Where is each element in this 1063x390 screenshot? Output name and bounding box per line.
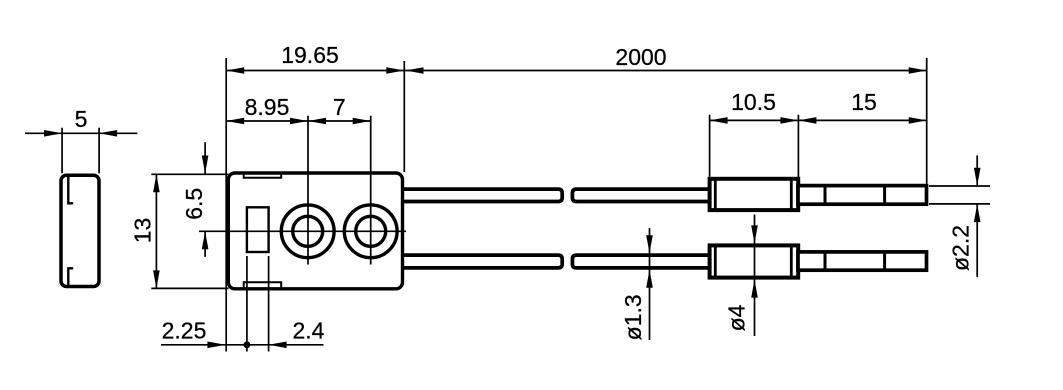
dimension o1.3 down arrow (646, 235, 653, 253)
dimension 10.5 left arrow (710, 117, 728, 124)
svg-text:13: 13 (130, 218, 156, 244)
dimension o2.2 up arrow (974, 204, 981, 222)
main body outline (228, 173, 402, 289)
dimension 6.5 upper segment (204, 142, 206, 173)
dimension 19.65 line (226, 70, 404, 72)
dimension 15 line (798, 119, 926, 121)
dimension o2.2 extension lines (929, 185, 990, 187)
dimension 10.5 right arrow (780, 117, 798, 124)
svg-text:2000: 2000 (615, 44, 666, 70)
dimension 7 right arrow (353, 118, 371, 125)
dimension o2.2 lower segment (976, 204, 978, 277)
bottom sleeve outline (710, 245, 799, 277)
dimension o2.2 upper segment (976, 155, 978, 185)
slot extension lines (246, 256, 248, 352)
side view groove upper line (68, 177, 73, 204)
svg-text:2.25: 2.25 (162, 318, 207, 344)
dimension 8.95 right arrow (290, 118, 308, 125)
dimension 7 left arrow (308, 118, 326, 125)
side view groove lower line (68, 268, 73, 285)
top tube division lines (824, 186, 827, 204)
svg-text:5: 5 (75, 106, 88, 132)
hole 1 vertical centerline (307, 116, 309, 265)
dimension 5 extension lines (61, 128, 63, 174)
hole 1 inner circle (293, 216, 323, 246)
svg-text:7: 7 (333, 94, 346, 120)
dimension 2000 right arrow (909, 67, 927, 74)
dimension 6.5 up arrow (202, 231, 209, 249)
top wire segment 1 (402, 189, 562, 201)
hole 1 outer circle (281, 205, 334, 258)
top sleeve outline (710, 179, 799, 210)
dimension 10.5 line (710, 119, 799, 121)
dimension 2.25 outside arrow (207, 342, 225, 349)
svg-text:10.5: 10.5 (731, 89, 776, 115)
svg-text:6.5: 6.5 (181, 188, 207, 220)
body right extension line (403, 61, 405, 172)
dimension 2000 left arrow (406, 67, 424, 74)
bottom tube outline (798, 252, 927, 270)
bottom sleeve inner lines (714, 246, 717, 278)
dimension o4 down arrow (751, 225, 758, 243)
dimension 6.5 lower segment (204, 231, 206, 257)
top tube outline (798, 186, 927, 205)
hole 2 vertical centerline (370, 116, 372, 265)
svg-text:ø1.3: ø1.3 (620, 294, 646, 340)
shared dimension dot (244, 341, 251, 348)
bottom wire segment 2 (572, 255, 708, 268)
dimension 19.65 left arrow (226, 67, 244, 74)
dimension 8.95 line (226, 120, 308, 122)
dimension 6.5 down arrow (202, 156, 209, 174)
dimension 2000 line (404, 70, 926, 72)
top wire segment 2 (572, 189, 708, 201)
dimension 5 left arrow (44, 130, 62, 137)
dimension 13 extension lines (151, 173, 228, 175)
dimension 8.95 left arrow (226, 118, 244, 125)
dimension o1.3 line (649, 228, 651, 340)
dimension 2.25 leader (161, 344, 225, 346)
svg-text:15: 15 (851, 89, 877, 115)
left extension line full height (225, 58, 227, 352)
dimension 2.4 leader (269, 344, 324, 346)
hole 2 outer circle (344, 205, 397, 258)
dimension o2.2 down arrow (974, 168, 981, 186)
body top notch (244, 173, 282, 178)
body bottom notch (244, 282, 282, 289)
dimension 15 left arrow (798, 117, 816, 124)
dimension 13 down arrow (153, 270, 160, 288)
svg-text:ø4: ø4 (724, 304, 750, 331)
svg-text:ø2.2: ø2.2 (948, 225, 974, 271)
side view outline (61, 175, 99, 286)
horizontal centerline (199, 230, 406, 232)
dimension 7 line (308, 120, 371, 122)
dimension 19.65 right arrow (386, 67, 404, 74)
dimension o4 up arrow (751, 280, 758, 298)
dimension 15 right arrow (909, 117, 927, 124)
dimension line between slot extensions (225, 344, 269, 346)
dimension 5 line (25, 132, 137, 134)
bottom tube division lines (824, 252, 827, 270)
hole 2 inner circle (356, 216, 386, 246)
top sleeve inner lines (714, 179, 717, 210)
right end extension line (926, 58, 928, 186)
dimension 13 line (155, 174, 157, 288)
dimension o4 line (754, 215, 756, 337)
dimension 13 up arrow (153, 174, 160, 192)
dimension o1.3 up arrow (646, 270, 653, 288)
svg-text:19.65: 19.65 (281, 42, 339, 68)
svg-text:2.4: 2.4 (293, 318, 325, 344)
svg-text:8.95: 8.95 (245, 94, 290, 120)
body slot rectangle (247, 207, 269, 252)
bottom wire segment 1 (402, 255, 562, 268)
dimension 10.5 extension lines (709, 115, 711, 177)
dimension 5 right arrow (99, 130, 117, 137)
dimension 2.4 outside arrow (269, 342, 287, 349)
